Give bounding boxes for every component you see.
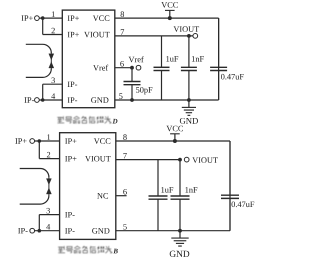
pin number 3 (top) — [52, 78, 55, 84]
pin number 8 (bottom) — [123, 134, 127, 140]
junction dot Vref (top) — [130, 66, 134, 70]
junction dot pin4 (top) — [41, 98, 45, 102]
terminal IP- circle (bottom) — [30, 228, 35, 233]
junction dot 50pF bottom (top) — [130, 98, 134, 102]
GND label (top) — [180, 118, 186, 124]
GND label (bottom) — [170, 251, 176, 257]
capacitor 50pF (top) — [131, 68, 133, 82]
ground symbol (bottom) — [179, 231, 181, 238]
wire right branch (bottom) — [229, 141, 231, 231]
pin number 4 (bottom) — [46, 224, 50, 229]
junction dot VIOUT (bottom) — [178, 158, 182, 162]
IC U1 pin labels left — [68, 15, 70, 20]
terminal IP+ (bottom) — [15, 138, 17, 143]
wire pin8 VCC rail (bottom) — [116, 140, 230, 142]
junction dot pin4 (bottom) — [38, 229, 42, 233]
terminal IP- circle (top) — [35, 98, 40, 103]
wire branch pin1-pin2 (top) — [42, 18, 44, 34]
wire pin3 (bottom) — [39, 214, 59, 216]
junction dot pin1 (top) — [41, 16, 45, 20]
pin number 1 (top) — [52, 11, 55, 16]
wire pin4 (top) — [39, 99, 62, 101]
wire right branch (top) — [218, 18, 220, 100]
pin number 3 (bottom) — [47, 208, 50, 214]
caption: model suffix D (top circuit) — [58, 116, 112, 123]
label 50pF (top) — [136, 87, 139, 93]
capacitor 0.47uF (top) — [218, 18, 220, 67]
wire pin1 (bottom) — [34, 140, 59, 142]
junction dot 1nF bottom (top) — [187, 98, 191, 102]
wire pin4 (bottom) — [34, 230, 59, 232]
label 1nF (bottom) — [185, 187, 188, 192]
IC U2 pin labels right — [94, 138, 100, 144]
pin number 8 (top) — [121, 11, 125, 17]
terminal IP+ (top) — [21, 15, 23, 20]
IC U1 pin labels right — [93, 15, 99, 21]
current path symbol (top) — [26, 44, 52, 53]
wire pin1 (top) — [39, 17, 62, 19]
terminal Vref circle (top) — [136, 65, 141, 70]
wire pin7 VIOUT rail (bottom) — [116, 159, 180, 161]
caption: model suffix B (bottom circuit) — [58, 246, 112, 253]
capacitor 1uF (top) — [161, 36, 163, 67]
junction dot VCC (bottom) — [173, 139, 177, 143]
label 1uF (bottom) — [161, 187, 164, 192]
VCC label (bottom) — [166, 126, 172, 132]
wire pin3 (top) — [43, 83, 63, 85]
pin number 5 (top) — [119, 93, 122, 99]
junction dot VCC (top) — [168, 16, 172, 20]
VCC symbol (top) — [165, 9, 175, 11]
pin number 7 (bottom) — [123, 153, 126, 158]
VCC label (top) — [161, 2, 167, 8]
wire pin7 VIOUT rail (top) — [115, 35, 193, 37]
pin number 6 (bottom) — [123, 189, 127, 195]
current path symbol (bottom) — [20, 169, 49, 178]
wire pin6 NC stub (bottom) — [116, 195, 127, 197]
pin number 4 (top) — [51, 93, 55, 98]
pin number 7 (top) — [121, 29, 124, 34]
capacitor 1nF (top) — [188, 36, 190, 67]
IC U1 body (top circuit) — [62, 10, 115, 108]
label 0.47uF (top) — [221, 74, 225, 80]
wire branch pin1-pin2 (bottom) — [38, 141, 40, 159]
terminal IP+ circle (bottom) — [30, 139, 35, 144]
wire pin8 VCC rail (top) — [115, 17, 219, 19]
junction dot pin1 (bottom) — [38, 139, 42, 143]
terminal IP- (bottom) — [18, 228, 20, 233]
capacitor 1nF (bottom) — [179, 160, 181, 196]
wire branch pin3-pin4 (top) — [42, 84, 44, 100]
terminal VIOUT circle (bottom) — [184, 157, 189, 162]
wire pin5 GND rail (top) — [115, 99, 219, 101]
terminal IP+ circle (top) — [35, 16, 40, 21]
label 1uF (top) — [166, 56, 169, 61]
IC U2 body (bottom circuit) — [60, 133, 116, 240]
capacitor 1uF (bottom) — [157, 160, 159, 196]
VCC symbol (bottom) — [170, 133, 180, 135]
pin number 2 (bottom) — [47, 152, 50, 157]
ground symbol (top) — [188, 100, 190, 107]
VIOUT label (bottom) — [192, 157, 198, 163]
junction dot 1nF bottom (bottom) — [178, 229, 182, 233]
wire branch pin3-pin4 (bottom) — [38, 215, 40, 231]
VIOUT label (top) — [173, 26, 179, 32]
terminal VIOUT circle (top) — [193, 34, 198, 39]
pin number 5 (bottom) — [123, 224, 126, 230]
pin number 6 (top) — [120, 61, 124, 67]
IC U2 pin labels left — [65, 138, 67, 143]
Vref label (top) — [129, 57, 135, 63]
pin number 1 (bottom) — [47, 134, 50, 139]
terminal IP- (top) — [24, 97, 26, 102]
pin number 2 (top) — [51, 28, 54, 33]
wire pin5 GND rail (bottom) — [116, 230, 230, 232]
wire pin6 Vref (top) — [115, 67, 132, 69]
label 1nF (top) — [192, 56, 195, 61]
junction dot VIOUT (top) — [187, 34, 191, 38]
capacitor 0.47uF (bottom) — [229, 141, 231, 195]
label 0.47uF (bottom) — [232, 201, 236, 207]
